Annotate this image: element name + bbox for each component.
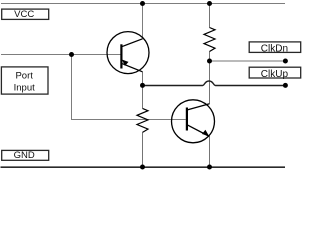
svg-text:VCC: VCC — [14, 9, 34, 20]
svg-text:GND: GND — [14, 150, 35, 161]
svg-text:ClkUp: ClkUp — [261, 69, 289, 80]
svg-text:Port: Port — [15, 71, 33, 82]
svg-text:Input: Input — [14, 82, 35, 93]
svg-text:ClkDn: ClkDn — [261, 43, 288, 54]
